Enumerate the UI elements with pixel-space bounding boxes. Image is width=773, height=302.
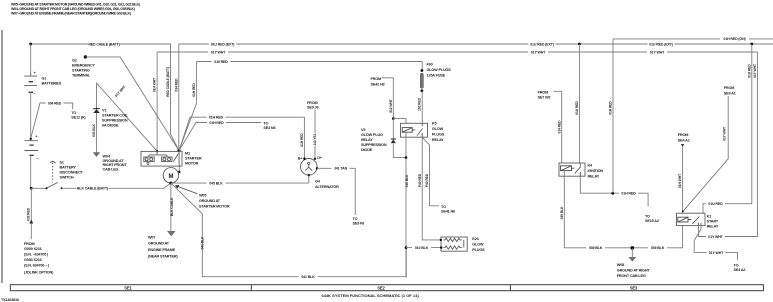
starter contact blade — [173, 154, 178, 162]
svg-text:(JDLINK OPTION): (JDLINK OPTION) — [24, 270, 54, 274]
svg-text:G009 X216: G009 X216 — [24, 247, 42, 251]
svg-text:START: START — [707, 219, 719, 223]
junction dot 01U RED bus to K1 — [750, 43, 753, 46]
relay K1 coil — [678, 217, 688, 222]
relay K5 glow plugs box — [401, 123, 428, 137]
relay K4 coil pin lower — [563, 171, 565, 177]
svg-text:K5: K5 — [432, 121, 437, 125]
ground W04 — [96, 151, 98, 152]
relay K4 coil — [561, 166, 572, 171]
node battery positive junction — [29, 43, 32, 46]
solenoid winding ground mark — [146, 162, 149, 165]
svg-text:DIODE: DIODE — [361, 148, 373, 152]
svg-text:W05: W05 — [199, 194, 206, 198]
svg-text:162 RED: 162 RED — [418, 97, 422, 111]
wire battery feed down — [30, 44, 32, 73]
svg-text:STARTER MOTOR: STARTER MOTOR — [199, 205, 230, 209]
svg-text:SE9 J6: SE9 J6 — [307, 106, 318, 110]
wire junction to K5 coil — [393, 119, 406, 124]
label RED CABLE (BATT) — [88, 41, 120, 47]
svg-text:SE41 H6: SE41 H6 — [441, 210, 455, 214]
svg-text:019 RED: 019 RED — [214, 60, 228, 64]
svg-text:GLOW: GLOW — [472, 243, 484, 247]
svg-text:FROM: FROM — [724, 86, 734, 90]
svg-text:J42 YEL: J42 YEL — [313, 133, 317, 145]
glow plug element upper — [444, 238, 462, 241]
arrow from SE4 — [681, 144, 684, 147]
svg-text:032 RED: 032 RED — [27, 207, 31, 221]
svg-text:GLOW PLUGS: GLOW PLUGS — [427, 68, 452, 72]
svg-text:6A DIODE: 6A DIODE — [102, 123, 119, 127]
border zone divider SE2/SE3 — [509, 285, 511, 291]
solenoid winding left — [144, 157, 154, 162]
terminal G2 emergency starting — [84, 55, 87, 58]
label 01U RED at K1 — [706, 201, 725, 207]
label 010 BLK horizontal — [412, 245, 431, 251]
label W05 GROUND AT STARTER MOTOR with arrow — [178, 187, 198, 194]
svg-text:GROUND AT RIGHT: GROUND AT RIGHT — [617, 269, 651, 273]
terminal dot fuse bottom — [421, 89, 424, 92]
border zone bar — [10, 285, 763, 291]
wire V1 anode to starter terminal — [97, 83, 158, 151]
label 01H RED horizontal upper — [207, 114, 226, 120]
svg-text:G2: G2 — [72, 58, 77, 62]
svg-text:01U RED: 01U RED — [747, 64, 751, 78]
wire 010 BLK junction to glow plugs — [406, 247, 441, 249]
svg-text:TO: TO — [645, 214, 650, 218]
svg-text:SE9 A1: SE9 A1 — [724, 91, 736, 95]
node K5 coil junction — [392, 117, 395, 120]
svg-text:010 BLK: 010 BLK — [405, 174, 409, 187]
svg-text:TO: TO — [734, 263, 739, 267]
terminal ground dot — [308, 174, 310, 176]
svg-text:CAB LEG: CAB LEG — [103, 168, 119, 172]
svg-text:039 BLK: 039 BLK — [651, 246, 665, 250]
terminal B+ dot — [303, 158, 305, 160]
svg-text:041 BLK: 041 BLK — [200, 236, 204, 249]
node starter solenoid terminal — [156, 150, 158, 152]
label 01U RED (EXT) mid — [529, 41, 556, 47]
svg-text:K1: K1 — [707, 214, 712, 218]
relay K4 contact blade — [575, 163, 581, 176]
wire 032 RED from JDLink — [30, 188, 32, 239]
node W08 ground junction — [631, 246, 635, 250]
svg-text:ENGINE FRAME: ENGINE FRAME — [148, 248, 176, 252]
svg-text:01U RED (EXT): 01U RED (EXT) — [530, 42, 555, 46]
svg-text:RELAY: RELAY — [588, 174, 600, 178]
wire 034 BLK diode to ground — [96, 113, 98, 151]
wire 014 RED from SE7 to K4 coil — [554, 91, 562, 163]
wire between battery cells — [30, 92, 32, 140]
node starter ground junction — [169, 182, 172, 185]
wire D+ from SE9 — [314, 110, 316, 159]
svg-text:DISCONNECT: DISCONNECT — [60, 171, 84, 175]
svg-text:039 BLK: 039 BLK — [560, 206, 564, 219]
node K4 output junction — [611, 192, 614, 195]
wire 019 RED bus line — [197, 61, 423, 63]
svg-text:S1: S1 — [60, 161, 64, 165]
svg-text:GLOW PLUG: GLOW PLUG — [361, 133, 383, 137]
wire 01Y WHT bus drop to K1 contact out — [699, 52, 758, 237]
svg-text:STARTER: STARTER — [185, 156, 202, 160]
svg-text:01U RED: 01U RED — [575, 101, 579, 115]
node 010 BLK junction at glow plugs — [405, 246, 408, 249]
svg-text:644K SYSTEM FUNCTIONAL SCHEMAT: 644K SYSTEM FUNCTIONAL SCHEMATIC (1 OF 1… — [322, 293, 420, 298]
wire V5 cathode to coil return — [393, 143, 406, 158]
label 01Y WHT left — [208, 49, 228, 55]
terminal dot fuse top — [421, 69, 424, 72]
border zone divider SE1/SE2 — [250, 285, 252, 291]
svg-text:01Y WHT: 01Y WHT — [531, 50, 546, 54]
svg-text:IGNITION: IGNITION — [588, 169, 604, 173]
svg-text:GROUND AT: GROUND AT — [148, 242, 170, 246]
alternator rotor symbol — [308, 162, 310, 164]
svg-text:01Y WHT: 01Y WHT — [708, 235, 723, 239]
terminal D+ dot — [314, 158, 316, 160]
glow plug common bar — [463, 240, 465, 248]
wire G2 to starter terminal — [85, 57, 179, 151]
svg-text:PLUGS: PLUGS — [432, 132, 445, 136]
svg-text:01Y WHT: 01Y WHT — [211, 50, 226, 54]
svg-text:GLOW: GLOW — [432, 127, 444, 131]
label 01H RED at K4 output — [619, 190, 638, 196]
switch S1 battery disconnect — [46, 187, 48, 189]
svg-text:V5: V5 — [361, 128, 365, 132]
svg-text:W04–GROUND AT RIGHT FRONT CAB: W04–GROUND AT RIGHT FRONT CAB LEG (GROUN… — [11, 7, 136, 11]
wire 041 BLK starter ground to glow plugs — [171, 183, 406, 277]
svg-text:TO: TO — [441, 205, 446, 209]
glow plugs E26 box — [441, 237, 467, 251]
border left edge of sheet — [1, 30, 3, 283]
svg-text:TO: TO — [263, 121, 268, 125]
svg-text:GROUND AT: GROUND AT — [199, 199, 221, 203]
wire 034 RED to SE12 — [31, 103, 73, 139]
wire J41 TAN alternator W to SE9 — [317, 168, 355, 215]
wire 01H RED riser to bus GN — [612, 39, 614, 193]
wire solenoid feed link — [149, 151, 167, 157]
node K5 coil return junction — [405, 156, 408, 159]
svg-text:EMERGENCY: EMERGENCY — [72, 63, 95, 67]
label 034 RED — [46, 100, 64, 105]
svg-text:MOTOR: MOTOR — [185, 161, 199, 165]
relay K4 ignition box — [559, 163, 585, 176]
svg-text:RED CABLE (BATT): RED CABLE (BATT) — [88, 42, 120, 46]
svg-text:G053 X216: G053 X216 — [24, 258, 42, 262]
wire 612 WHT from SE42 to K5 coil — [382, 78, 394, 119]
diode V5 glow plug relay suppression — [391, 138, 396, 140]
label BLK CABLE (BATT) — [77, 186, 109, 192]
solenoid winding right — [162, 157, 172, 162]
svg-text:01H RED: 01H RED — [300, 133, 304, 147]
junction dot 01U RED bus to K4 — [578, 43, 581, 46]
label 01U RED (EXT) right — [648, 41, 675, 47]
svg-text:BLK CABLE: BLK CABLE — [170, 197, 174, 216]
node battery 2 positive junction — [30, 138, 32, 140]
svg-text:SE2: SE2 — [377, 285, 385, 290]
svg-text:W07: W07 — [148, 236, 155, 240]
svg-text:FROM: FROM — [307, 101, 317, 105]
svg-text:W08: W08 — [617, 263, 624, 267]
alternator G4 circle — [301, 159, 318, 176]
svg-text:01Y WHT: 01Y WHT — [650, 50, 665, 54]
svg-text:E26: E26 — [472, 237, 478, 241]
svg-text:034 RED: 034 RED — [48, 101, 62, 105]
wire 01H RED drop to starter — [179, 62, 197, 151]
svg-text:RELAY: RELAY — [361, 138, 373, 142]
svg-text:125A FUSE: 125A FUSE — [427, 73, 446, 77]
svg-text:01U RED (EXT): 01U RED (EXT) — [649, 42, 674, 46]
wire alternator ground stub — [308, 175, 310, 183]
switch S1 actuator dashed — [52, 163, 54, 183]
wire 162 RED fuse to K5 contact — [421, 91, 423, 124]
label 039 BLK left — [586, 245, 605, 251]
terminal dot E26 top — [440, 239, 442, 241]
svg-text:01H RED (GN): 01H RED (GN) — [723, 37, 746, 41]
wire BLK CABLE starter to engine frame ground — [170, 183, 172, 231]
node K1 coil junction — [682, 210, 684, 212]
svg-text:01H RED: 01H RED — [209, 116, 224, 120]
label 01Y WHT at K1 — [706, 234, 725, 240]
wire 01U RED (EXT) bus line — [179, 43, 773, 45]
svg-text:SE4 A1: SE4 A1 — [678, 138, 690, 142]
svg-text:01H WHT: 01H WHT — [153, 77, 157, 92]
svg-text:STARTER COIL: STARTER COIL — [102, 113, 128, 117]
label 019 RED — [212, 59, 231, 65]
svg-text:01Y WHT: 01Y WHT — [723, 126, 727, 141]
svg-text:P40 RED: P40 RED — [418, 173, 422, 187]
svg-text:01H RED: 01H RED — [609, 101, 613, 115]
svg-text:RELAY: RELAY — [432, 138, 444, 142]
svg-text:01U RED (EXT): 01U RED (EXT) — [211, 42, 236, 46]
svg-text:P40 RED: P40 RED — [425, 173, 429, 187]
svg-text:SE9 F8: SE9 F8 — [353, 222, 365, 226]
svg-text:G1: G1 — [42, 76, 47, 80]
diode V1 starter coil suppression — [93, 108, 100, 110]
svg-text:M1: M1 — [185, 151, 190, 155]
starter motor M armature circle — [163, 168, 178, 183]
svg-text:01H WHT: 01H WHT — [678, 173, 682, 188]
label J42 YEL vertical — [313, 133, 316, 146]
wire RED CABLE (BATT) drop to starter — [171, 44, 180, 151]
fuse F60 glow plugs 125A body — [420, 73, 423, 88]
wire junction to V5 diode — [392, 119, 394, 139]
wire 01Y WHT from SE9 to K1 coil — [683, 96, 728, 211]
svg-text:TERMINAL: TERMINAL — [72, 73, 91, 77]
wire 01H WHT drop to starter — [156, 52, 158, 151]
svg-text:034 BLK: 034 BLK — [92, 123, 96, 136]
svg-text:SE3: SE3 — [630, 285, 638, 290]
label 045 BLK — [207, 180, 226, 186]
label 01Y WHT right — [647, 49, 667, 55]
fuse F60 feed from 019 RED — [421, 62, 423, 71]
svg-text:01Y WHT: 01Y WHT — [753, 63, 757, 78]
wire 01H RED starter to alternator B+ — [179, 117, 304, 159]
label 01Y WHT at K1 output — [707, 250, 726, 256]
svg-text:BATTERIES: BATTERIES — [42, 82, 62, 86]
battery G1 upper cell — [24, 73, 37, 86]
relay K1 contact blade — [692, 217, 701, 226]
svg-text:041 BLK: 041 BLK — [301, 275, 315, 279]
relay K5 contact blade — [417, 123, 423, 137]
svg-text:ALTERNATOR: ALTERNATOR — [315, 185, 339, 189]
svg-text:01Y WHT: 01Y WHT — [709, 251, 724, 255]
svg-text:FRONT CAB LEG: FRONT CAB LEG — [617, 274, 646, 278]
svg-text:SE12 (K): SE12 (K) — [71, 116, 86, 120]
wire P40 RED relay to glow plugs — [422, 137, 440, 240]
svg-text:SWITCH: SWITCH — [60, 176, 74, 180]
label 01H RED horizontal lower — [207, 120, 226, 126]
svg-text:SUPPRESSION: SUPPRESSION — [102, 118, 128, 122]
wire 01H WHT from SE4 to K1 coil — [682, 148, 684, 214]
terminal W dot — [316, 167, 318, 169]
svg-text:039 BLK: 039 BLK — [589, 246, 603, 250]
svg-text:045 BLK: 045 BLK — [209, 181, 223, 185]
wire battery negative down to disconnect switch — [30, 155, 32, 188]
svg-text:01H RED: 01H RED — [192, 83, 196, 97]
ground W07 — [167, 231, 176, 236]
arrow from JDLink — [29, 220, 33, 224]
terminal dot E26 bottom — [440, 246, 442, 248]
node S1 junction — [30, 187, 33, 190]
svg-text:SE15 A2: SE15 A2 — [645, 219, 659, 223]
svg-text:FROM: FROM — [371, 77, 381, 81]
wire 01H RED (GN) bus line right — [613, 38, 773, 40]
svg-text:612 WHT: 612 WHT — [389, 98, 393, 113]
battery G1 lower cell — [25, 141, 39, 151]
svg-text:W05–GROUND AT STARTER MOTOR (G: W05–GROUND AT STARTER MOTOR (GROUND WIRE… — [11, 3, 141, 7]
svg-text:(S.N. –634705 ): (S.N. –634705 ) — [24, 253, 49, 257]
node starter B terminal — [178, 149, 181, 152]
wire junction to switch S1 — [31, 187, 46, 189]
node starter motor terminal dot — [178, 171, 180, 173]
wire 010 BLK coil return to ground bus — [405, 158, 407, 277]
wire BLK CABLE (BATT) to starter ground node — [62, 183, 171, 188]
wire 034 RED drop to starter — [178, 44, 180, 151]
svg-text:PLUGS: PLUGS — [472, 248, 485, 252]
svg-text:M: M — [169, 174, 174, 180]
svg-text:SUPPRESSION: SUPPRESSION — [361, 143, 387, 147]
glow plug element lower — [444, 246, 462, 249]
svg-text:(S.N. 634706 – ): (S.N. 634706 – ) — [24, 263, 50, 267]
svg-text:01U RED: 01U RED — [708, 202, 723, 206]
svg-text:SE42 H3: SE42 H3 — [371, 82, 385, 86]
wire RED CABLE (BATT) bus from battery to starter drop — [31, 43, 171, 45]
wire starter stud to motor — [178, 166, 180, 172]
relay K5 coil pin lower — [405, 132, 407, 157]
wire P40 RED relay to SE41 — [422, 137, 439, 206]
wire 01U RED bus to K1 contact — [703, 44, 752, 213]
svg-text:010 BLK: 010 BLK — [415, 246, 429, 250]
svg-text:TO: TO — [353, 217, 358, 221]
wire 01Y WHT K1 output to SE4 — [694, 226, 737, 260]
svg-text:SE7 W2: SE7 W2 — [538, 96, 551, 100]
label 041 BLK horizontal — [299, 274, 318, 280]
wire 01Y WHT bus line — [157, 51, 757, 53]
svg-text:BLK CABLE (BATT): BLK CABLE (BATT) — [77, 187, 109, 191]
wire 01H RED starter to SE3 — [179, 123, 261, 151]
relay K1 start box — [677, 213, 706, 225]
svg-text:FROM: FROM — [24, 242, 34, 246]
svg-text:RELAY: RELAY — [707, 224, 719, 228]
svg-text:01H RED: 01H RED — [209, 121, 224, 125]
svg-text:TO: TO — [71, 111, 76, 115]
svg-text:W07–GROUND AT ENGINE FRAME (NE: W07–GROUND AT ENGINE FRAME (NEAR STARTER… — [11, 12, 132, 16]
svg-text:RED CABLE (BATT): RED CABLE (BATT) — [166, 67, 170, 97]
svg-text:STARTING: STARTING — [72, 68, 90, 72]
svg-text:TX1104816: TX1104816 — [1, 298, 19, 302]
svg-text:SE4 A2: SE4 A2 — [734, 268, 746, 272]
svg-text:034 RED: 034 RED — [174, 78, 178, 92]
ground W08 — [631, 248, 633, 257]
svg-text:F60: F60 — [427, 63, 433, 67]
svg-text:SE3 N6: SE3 N6 — [263, 126, 275, 130]
svg-text:SE1: SE1 — [124, 285, 132, 290]
wire 01H RED K4 contact output — [580, 176, 648, 206]
label J41 TAN — [332, 166, 350, 172]
svg-text:V1: V1 — [102, 108, 106, 112]
svg-text:FROM: FROM — [538, 90, 548, 94]
wire 01U RED bus to K4 contact — [578, 44, 580, 163]
svg-text:J41 TAN: J41 TAN — [334, 167, 348, 171]
starter M1 solenoid box — [141, 151, 182, 166]
label 01Y WHT mid — [528, 49, 548, 55]
svg-text:01H RED: 01H RED — [621, 192, 636, 196]
label 039 BLK right — [648, 245, 667, 251]
wire 045 BLK starter to alternator frame — [171, 182, 309, 184]
svg-text:FROM: FROM — [678, 133, 688, 137]
svg-text:(NEAR STARTER): (NEAR STARTER) — [148, 255, 178, 259]
wire 039 BLK K4 coil to ground and K1 coil — [564, 176, 682, 248]
label 01U RED (EXT) left — [209, 41, 236, 47]
svg-text:BATTERY: BATTERY — [60, 166, 77, 170]
svg-text:014 RED: 014 RED — [557, 120, 561, 134]
relay K5 coil — [402, 128, 412, 133]
label 01H RED (GN) — [720, 36, 749, 42]
